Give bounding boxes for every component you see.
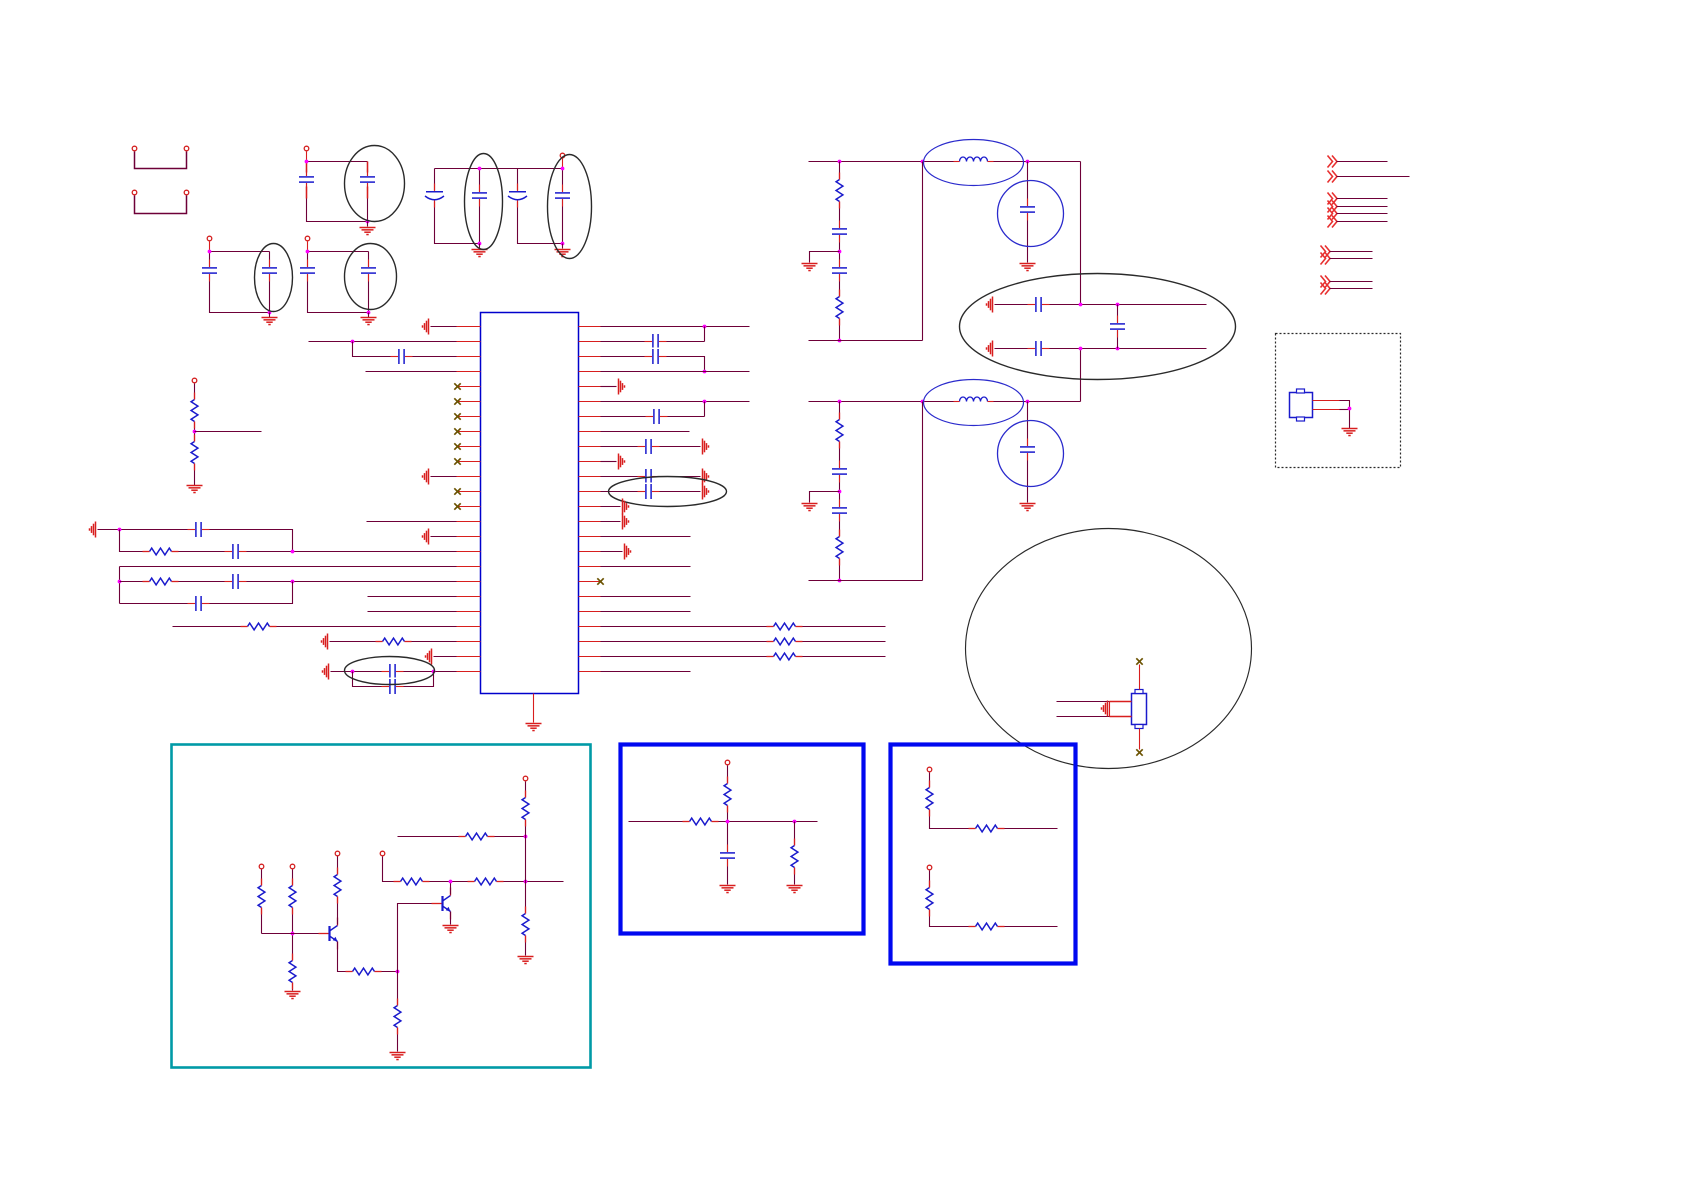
capacitor C19 — [645, 348, 667, 366]
wire gnd spur — [810, 252, 840, 263]
ground — [285, 992, 301, 999]
ground — [802, 264, 818, 271]
capacitor C3 — [425, 184, 444, 208]
wire loop2 — [518, 169, 563, 244]
wire — [1313, 400, 1340, 402]
resistor R6 — [376, 637, 412, 646]
highlight ellipse E4 — [255, 244, 293, 312]
terminal P8 — [259, 864, 264, 869]
transistor Q1 — [319, 918, 338, 950]
wire vert525 — [525, 782, 527, 956]
ground — [423, 319, 429, 335]
resistor R7 — [767, 622, 803, 631]
resistor R22 — [459, 832, 495, 841]
dashed box — [1276, 334, 1401, 468]
junction — [367, 311, 371, 315]
terminal P12 — [523, 776, 528, 781]
wire — [367, 222, 369, 227]
terminal P3 — [304, 146, 309, 151]
highlight ellipse E5 — [345, 244, 397, 310]
highlight ellipse (blue) — [924, 140, 1024, 186]
junction — [351, 670, 355, 674]
no-connect — [454, 413, 460, 419]
wire — [209, 242, 211, 252]
component CN1 — [1290, 389, 1313, 421]
wire cap branch — [1027, 402, 1029, 503]
wire r16 — [601, 566, 691, 568]
ground — [390, 1053, 406, 1060]
pin R22 — [579, 641, 601, 643]
junction — [306, 250, 310, 254]
wire — [353, 342, 457, 357]
wire r22 — [601, 656, 886, 658]
wire bottom rail — [809, 340, 923, 342]
resistor R21 — [468, 877, 504, 886]
pin L11 — [457, 476, 481, 478]
port arrow 2 — [1328, 171, 1338, 183]
capacitor C27 — [719, 845, 737, 867]
wire — [601, 506, 621, 508]
resistor R29 — [969, 824, 1005, 833]
pin L4 — [457, 371, 481, 373]
wire chain — [839, 162, 841, 341]
junction — [1079, 347, 1083, 351]
ground — [187, 486, 203, 493]
ground (case) — [1102, 701, 1108, 717]
port arrow 1 — [1328, 156, 1338, 168]
crystal Y1 — [1132, 690, 1147, 729]
capacitor C9 — [299, 260, 317, 282]
ground — [787, 886, 803, 893]
ground — [472, 250, 488, 257]
wire — [1337, 176, 1410, 178]
teal box — [172, 745, 591, 1068]
wire vert — [922, 162, 924, 341]
wire row671 — [331, 671, 457, 673]
pin R11 — [579, 476, 601, 478]
junction — [1348, 407, 1352, 411]
wire emitter Q2 — [450, 912, 452, 925]
connector J2 — [135, 196, 187, 214]
pin L12 — [457, 491, 481, 493]
resistor — [835, 290, 844, 326]
pin L24 — [457, 671, 481, 673]
junction — [921, 160, 925, 164]
junction — [432, 670, 436, 674]
wire — [431, 326, 457, 328]
wire — [930, 871, 1058, 927]
junction — [1079, 303, 1083, 307]
ground — [802, 504, 818, 511]
capacitor C13 — [225, 543, 247, 561]
wire — [1313, 409, 1340, 411]
wire — [601, 461, 617, 463]
junction — [524, 880, 528, 884]
ground — [703, 439, 709, 455]
pin L1 — [457, 326, 481, 328]
junction — [921, 400, 925, 404]
junction — [291, 550, 295, 554]
wire row529 — [98, 530, 293, 552]
wire r20 — [601, 626, 886, 628]
junction — [291, 580, 295, 584]
pin R8 — [579, 431, 601, 433]
ground — [423, 469, 429, 485]
wire — [601, 386, 617, 388]
resistor R9 — [767, 652, 803, 661]
ground — [703, 484, 709, 500]
wire — [727, 766, 729, 885]
capacitor C20 — [646, 408, 668, 426]
wire cap branch — [1027, 162, 1029, 263]
junction — [524, 835, 528, 839]
ground — [619, 454, 625, 470]
wire long — [309, 341, 457, 343]
wire r12 — [601, 491, 701, 493]
capacitor C14 — [225, 573, 247, 591]
wire — [292, 870, 294, 991]
pin R16 — [579, 551, 601, 553]
wire — [431, 536, 457, 538]
capacitor C5 — [508, 184, 527, 208]
capacitor — [1019, 439, 1037, 461]
junction — [208, 250, 212, 254]
terminal J2-1 — [132, 190, 137, 195]
pin R17 — [579, 566, 601, 568]
wire loop — [307, 162, 368, 222]
terminal P13 — [725, 760, 730, 765]
capacitor C21 — [638, 438, 660, 456]
wire node VCC1 — [307, 161, 368, 163]
pin R5 — [579, 386, 601, 388]
resistor R19 — [393, 999, 402, 1035]
capacitor — [831, 500, 849, 522]
ground — [518, 957, 534, 964]
capacitor — [831, 221, 849, 243]
resistor R25 — [723, 777, 732, 813]
resistor — [835, 413, 844, 449]
wire — [704, 402, 706, 417]
junction — [838, 490, 842, 494]
highlight ellipse (blue) — [924, 380, 1024, 426]
wire r19 — [601, 611, 691, 613]
pin L19 — [457, 596, 481, 598]
junction — [396, 970, 400, 974]
wire — [1337, 206, 1388, 208]
terminal P9 — [290, 864, 295, 869]
resistor R20 — [394, 877, 430, 886]
ground — [1342, 429, 1358, 436]
pin L7 — [457, 416, 481, 418]
wire rowA — [995, 304, 1207, 306]
resistor R30 — [925, 881, 934, 917]
capacitor C23 — [638, 483, 660, 501]
wire r7 — [601, 416, 705, 418]
wire — [210, 251, 270, 253]
wire rail — [435, 168, 563, 170]
ground — [1020, 264, 1036, 271]
wire — [704, 327, 706, 342]
wire rail836 — [398, 836, 526, 838]
wire xtal bottom — [1139, 729, 1141, 750]
pin L5 — [457, 386, 481, 388]
resistor R28 — [925, 781, 934, 817]
capacitor C12 — [188, 521, 210, 539]
wire loop — [353, 672, 434, 687]
ground — [443, 926, 459, 933]
pin R24 — [579, 671, 601, 673]
junction — [118, 528, 122, 532]
resistor R5 — [241, 622, 277, 631]
no-connect — [597, 578, 603, 584]
capacitor C7 — [201, 260, 219, 282]
terminal P6 — [305, 236, 310, 241]
junction — [1026, 160, 1030, 164]
junction — [1116, 303, 1120, 307]
wire emitter Q1 — [338, 942, 398, 972]
wire rail — [809, 161, 1081, 163]
wire row551 — [120, 530, 457, 552]
junction — [366, 220, 370, 224]
junction — [703, 400, 707, 404]
ground — [987, 297, 993, 313]
pin L6 — [457, 401, 481, 403]
ground — [987, 341, 993, 357]
terminal P4 — [560, 153, 565, 158]
pin L18 — [457, 581, 481, 583]
junction — [478, 167, 482, 171]
resistor R23 — [521, 791, 530, 827]
wire — [601, 551, 623, 553]
inductor L — [954, 396, 994, 404]
ground — [625, 544, 631, 560]
wire collector Q1 — [337, 854, 339, 925]
wire rowB — [995, 348, 1207, 350]
pin L9 — [457, 446, 481, 448]
capacitor — [1019, 199, 1037, 221]
resistor R16 — [288, 954, 297, 990]
resistor R15 — [288, 879, 297, 915]
no-connect — [454, 398, 460, 404]
port arrow 8 — [1321, 253, 1331, 265]
pin R14 — [579, 521, 601, 523]
pin R3 — [579, 356, 601, 358]
wire r2 — [601, 341, 705, 343]
resistor R31 — [969, 922, 1005, 931]
highlight ellipse E8 — [960, 274, 1236, 380]
capacitor C26 — [1109, 316, 1127, 338]
junction — [305, 160, 309, 164]
resistor R24 — [521, 907, 530, 943]
wire — [368, 313, 370, 318]
resistor R18 — [346, 967, 382, 976]
capacitor C10 — [360, 260, 378, 282]
terminal P11 — [380, 851, 385, 856]
wire — [1337, 198, 1388, 200]
junction — [561, 167, 565, 171]
resistor — [835, 530, 844, 566]
junction — [351, 340, 355, 344]
no-connect — [454, 503, 460, 509]
ground — [703, 469, 709, 485]
wire loop — [210, 252, 270, 313]
wire rail — [629, 821, 818, 823]
wire — [930, 773, 1058, 829]
wire — [1330, 281, 1373, 283]
ground — [423, 529, 429, 545]
junction — [703, 370, 707, 374]
junction — [793, 820, 797, 824]
ground — [623, 514, 629, 530]
wire xtal top — [1139, 665, 1141, 690]
junction — [838, 339, 842, 343]
junction — [561, 242, 565, 246]
wire r4 — [601, 371, 750, 373]
capacitor — [831, 260, 849, 282]
wire row581 — [120, 581, 457, 583]
wire — [794, 822, 796, 885]
ground — [619, 379, 625, 395]
wire cap branch — [1117, 305, 1119, 349]
transistor Q2 — [432, 888, 451, 920]
capacitor C6 — [554, 185, 572, 207]
pin L13 — [457, 506, 481, 508]
no-connect — [1136, 658, 1142, 664]
port arrow 10 — [1321, 283, 1331, 295]
pin R12 — [579, 491, 601, 493]
wire r23 — [601, 671, 691, 673]
junction — [838, 400, 842, 404]
wire — [601, 521, 621, 523]
pin L8 — [457, 431, 481, 433]
wire — [1340, 409, 1350, 411]
port arrow 6 — [1328, 216, 1338, 228]
capacitor C2 — [359, 169, 377, 191]
IC U1 — [481, 313, 579, 694]
wire — [434, 656, 457, 658]
wire xtal pin3 — [1057, 716, 1110, 718]
wire — [261, 870, 263, 934]
pin L20 — [457, 611, 481, 613]
connector J1 — [135, 152, 187, 169]
wire row603 — [120, 582, 293, 604]
wire collector Q2 — [450, 882, 452, 895]
resistor R26 — [683, 817, 719, 826]
wire vert right2 — [1080, 349, 1082, 402]
ground — [90, 522, 96, 538]
highlight ellipse E7 — [609, 477, 727, 507]
no-connect — [454, 383, 460, 389]
pin R9 — [579, 446, 601, 448]
pin R6 — [579, 401, 601, 403]
wire — [307, 242, 309, 252]
wire vert right — [1080, 162, 1082, 304]
inductor L — [954, 156, 994, 164]
wire — [479, 244, 481, 249]
wire to base Q2 — [398, 904, 443, 972]
wire — [306, 152, 308, 162]
wire — [1330, 288, 1373, 290]
junction — [193, 430, 197, 434]
capacitor C24 — [1028, 296, 1050, 314]
blue box A — [621, 745, 864, 934]
wire — [562, 244, 564, 249]
ground — [323, 664, 329, 680]
pin R15 — [579, 536, 601, 538]
resistor R2 — [190, 435, 199, 471]
resistor R3 — [143, 547, 179, 556]
ground — [526, 724, 542, 731]
capacitor C1 — [298, 169, 316, 191]
junction — [838, 160, 842, 164]
terminal P5 — [207, 236, 212, 241]
capacitor C22 — [638, 468, 660, 486]
junction — [449, 880, 453, 884]
highlight ellipse E1 — [345, 146, 405, 222]
pin R1 — [579, 326, 601, 328]
pin L22 — [457, 641, 481, 643]
ground — [1020, 504, 1036, 511]
capacitor C4 — [471, 185, 489, 207]
terminal P15 — [927, 865, 932, 870]
wire loop1 — [435, 169, 480, 244]
wire — [368, 611, 457, 613]
wire r14 — [601, 536, 691, 538]
port arrow 7 — [1321, 246, 1331, 258]
wire xtal pin2 — [1057, 701, 1110, 703]
wire rail — [809, 401, 1081, 403]
wire — [366, 371, 457, 373]
wire — [431, 476, 457, 478]
wire — [368, 596, 457, 598]
junction — [291, 932, 295, 936]
port arrow 5 — [1328, 208, 1338, 220]
blue box B — [891, 745, 1076, 964]
pin R10 — [579, 461, 601, 463]
no-connect — [454, 488, 460, 494]
pin L17 — [457, 566, 481, 568]
wire — [367, 521, 457, 523]
junction — [726, 820, 730, 824]
wire — [562, 159, 564, 169]
pin R19 — [579, 596, 601, 598]
pin R20 — [579, 611, 601, 613]
pin R23 — [579, 656, 601, 658]
pin L21 — [457, 626, 481, 628]
wire vert — [119, 567, 121, 604]
pin L14 — [457, 521, 481, 523]
pin R21 — [579, 626, 601, 628]
junction — [703, 325, 707, 329]
ground — [322, 634, 328, 650]
wire — [330, 641, 457, 643]
resistor R4 — [143, 577, 179, 586]
pin R4 — [579, 371, 601, 373]
wire stub — [195, 431, 262, 433]
wire base Q1 — [262, 933, 330, 935]
junction — [1026, 400, 1030, 404]
no-connect — [454, 443, 460, 449]
capacitor C25 — [1028, 340, 1050, 358]
junction — [478, 242, 482, 246]
pin R13 — [579, 506, 601, 508]
wire gnd spur — [810, 492, 840, 503]
wire r18 — [601, 596, 691, 598]
capacitor C15 — [188, 595, 210, 613]
wire r3 — [601, 357, 705, 372]
wire IC ground stub — [533, 694, 535, 723]
pin L2 — [457, 341, 481, 343]
